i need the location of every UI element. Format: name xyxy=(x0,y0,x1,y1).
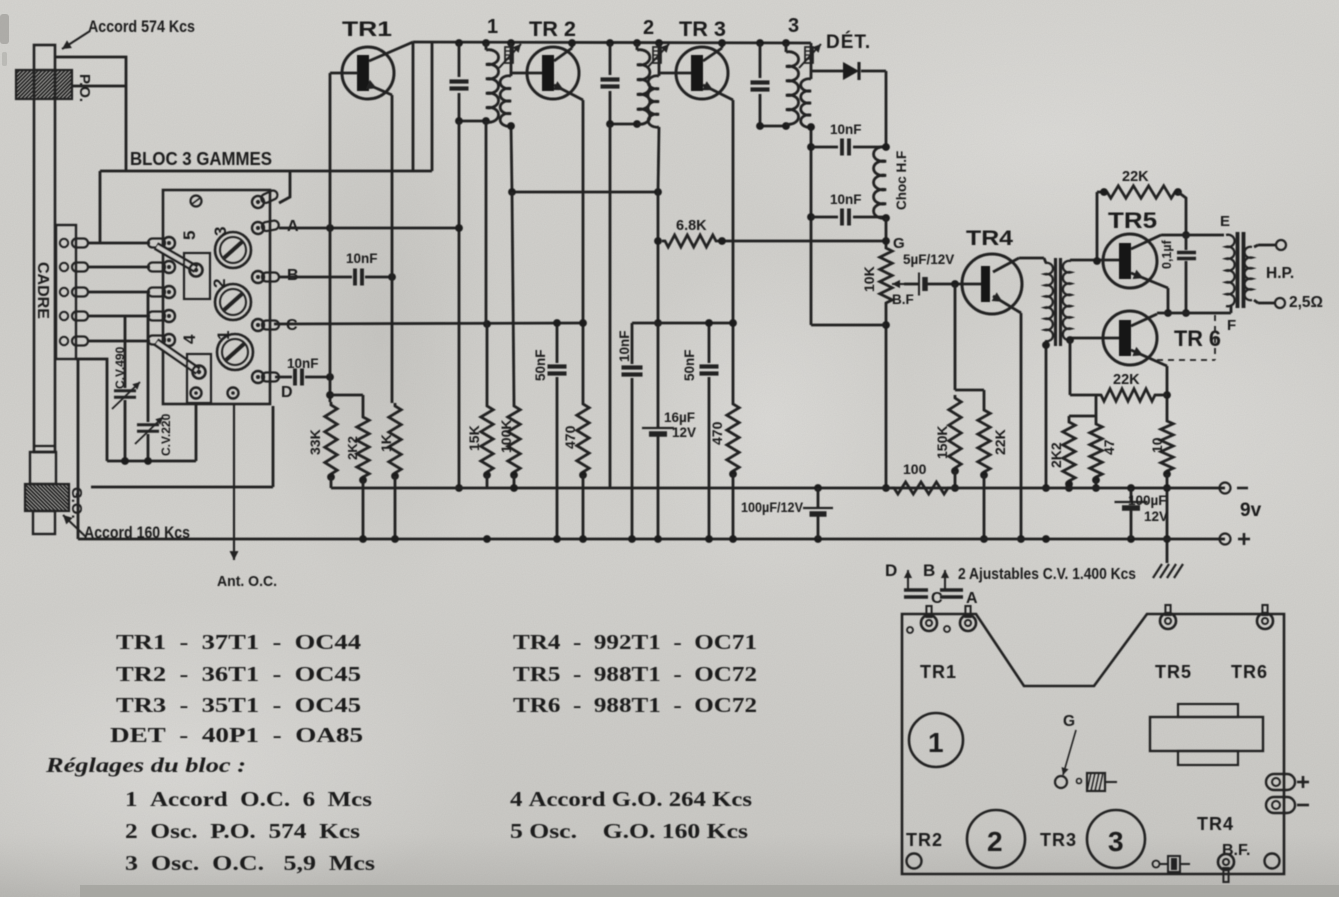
svg-text:5 Osc. G.O. 160 Kcs: 5 Osc. G.O. 160 Kcs xyxy=(510,819,748,843)
bloc left pad 4 xyxy=(148,310,175,322)
wire TR4 emitter to transformer xyxy=(1019,257,1044,260)
wire 1K to +rail xyxy=(394,476,397,539)
wire bloc pad down xyxy=(195,404,198,461)
wire F line xyxy=(1157,312,1231,315)
svg-text:Choc H.F: Choc H.F xyxy=(894,151,909,210)
capacitor IF2 tuning xyxy=(609,43,612,75)
transistor TR4 xyxy=(962,254,1022,314)
P.O. tuning slug (hatched) xyxy=(16,70,72,99)
svg-text:D: D xyxy=(281,384,293,401)
wire 100K vertical xyxy=(512,192,514,403)
bloc left pad 1 xyxy=(148,237,175,249)
rod bottom stub xyxy=(33,511,55,534)
pcb outline xyxy=(902,614,1284,874)
svg-text:A: A xyxy=(287,218,299,235)
transistor TR2 xyxy=(527,47,579,99)
resistor 22K (lower) xyxy=(1098,389,1158,401)
svg-text:100µF/12V: 100µF/12V xyxy=(741,499,804,515)
wire 22K to +rail xyxy=(983,475,986,539)
svg-text:2,5Ω: 2,5Ω xyxy=(1289,294,1323,311)
wire strip pad1 to bloc switch 5 xyxy=(88,242,150,245)
wire AVC line y171 xyxy=(100,170,432,173)
svg-text:CADRE: CADRE xyxy=(34,262,51,319)
TR2 leads xyxy=(554,48,572,61)
junction TR4 base node xyxy=(951,280,959,288)
transistor TR3 xyxy=(676,47,728,99)
capacitor C (pcb) xyxy=(904,588,928,592)
wire strip pad4 to bloc xyxy=(88,315,150,318)
svg-text:DET - 40P1 - OA85: DET - 40P1 - OA85 xyxy=(110,723,363,747)
junction xyxy=(359,476,367,484)
bloc bottom pad left xyxy=(191,388,202,399)
wire 2K2 to +rail xyxy=(362,480,365,539)
svg-text:B: B xyxy=(923,561,935,580)
junction xyxy=(121,457,129,465)
wire strip pad2 to bloc xyxy=(88,266,150,269)
svg-text:3: 3 xyxy=(1108,826,1124,857)
TR4 leads xyxy=(993,258,1019,272)
svg-text:TR 3: TR 3 xyxy=(679,18,726,41)
potentiometer 10K xyxy=(880,245,892,306)
wire IF2 sec bottom down xyxy=(658,127,659,192)
wire IF1 sec bottom down xyxy=(511,126,512,192)
svg-text:Ant. O.C.: Ant. O.C. xyxy=(217,573,277,590)
pcb pad E xyxy=(1160,613,1176,629)
svg-text:10nF: 10nF xyxy=(346,251,378,266)
svg-text:Accord 574 Kcs: Accord 574 Kcs xyxy=(88,17,195,36)
svg-text:TR2: TR2 xyxy=(906,830,943,850)
wire C.V.220 vertical xyxy=(147,292,150,422)
junction xyxy=(1092,476,1100,484)
wire 22K right down xyxy=(1178,192,1186,235)
wire IF2 down to rail xyxy=(609,124,612,488)
junction xyxy=(326,391,334,399)
svg-text:22K: 22K xyxy=(992,429,1008,455)
wire IF2 cap bottom xyxy=(610,123,637,126)
TR5 leads xyxy=(1131,235,1161,249)
wire vertical x432 xyxy=(431,43,434,171)
svg-text:5: 5 xyxy=(180,231,199,240)
transistor TR5 xyxy=(1103,234,1157,288)
arrow G xyxy=(1063,730,1076,775)
svg-text:TR4 - 992T1 - OC71: TR4 - 992T1 - OC71 xyxy=(513,630,757,654)
wire TR1 collector down xyxy=(391,95,394,403)
wire bias jog xyxy=(330,394,363,397)
arrow Ant. O.C. xyxy=(233,404,235,560)
G.O. tuning slug (hatched) xyxy=(25,484,69,511)
transformer output core xyxy=(1236,232,1240,308)
dashed link TR6 xyxy=(1157,359,1215,361)
junction xyxy=(327,473,335,481)
pcb circle 2 xyxy=(967,810,1025,868)
strip pad 5 xyxy=(60,337,68,345)
svg-text:3 Osc. O.C. 5,9 Mcs: 3 Osc. O.C. 5,9 Mcs xyxy=(125,851,375,875)
wire bloc right corner down xyxy=(272,406,275,487)
bloc bottom pad right xyxy=(228,388,239,399)
bloc right pad A xyxy=(251,218,280,235)
resistor 22K (top) xyxy=(1104,186,1178,198)
svg-text:2: 2 xyxy=(210,279,229,288)
junction xyxy=(980,471,988,479)
bloc box xyxy=(163,190,270,404)
capacitor 10nF (det2) xyxy=(811,216,838,219)
svg-text:2 Osc. P.O. 574 Kcs: 2 Osc. P.O. 574 Kcs xyxy=(125,819,360,843)
svg-text:DÉT.: DÉT. xyxy=(826,31,871,53)
wire y325 link xyxy=(811,324,886,327)
switch lever 4 xyxy=(156,342,198,371)
svg-text:3: 3 xyxy=(788,15,799,37)
svg-text:TR 6: TR 6 xyxy=(1174,326,1221,351)
wire HP top xyxy=(1254,245,1258,247)
wire strip bottom to bus xyxy=(76,359,107,461)
wire 100K to rail xyxy=(513,475,516,488)
pot wiper arrow xyxy=(892,283,904,285)
resistor 10 xyxy=(1161,418,1173,474)
capacitor 100uF/12V (right) xyxy=(1130,488,1133,501)
svg-text:G: G xyxy=(893,235,905,252)
svg-text:1: 1 xyxy=(928,727,944,758)
wire IF1 cap bottom xyxy=(459,120,486,123)
wire coil1 bottom to C line xyxy=(485,121,488,324)
svg-text:TR2 - 36T1 - OC45: TR2 - 36T1 - OC45 xyxy=(116,662,361,686)
wire x658 down xyxy=(657,192,660,323)
svg-text:TR1 - 37T1 - OC44: TR1 - 37T1 - OC44 xyxy=(116,630,362,654)
trimmer IF2 xyxy=(658,43,661,76)
wire P.O. to vertical xyxy=(72,85,126,88)
svg-text:6.8K: 6.8K xyxy=(676,218,707,234)
svg-text:TR6: TR6 xyxy=(1231,662,1268,682)
resistor 47 xyxy=(1090,421,1102,480)
capacitor 50nF (right) xyxy=(708,323,711,363)
pcb pad - xyxy=(1266,797,1295,813)
wire strip right down xyxy=(77,359,80,539)
svg-text:TR5 - 988T1 - OC72: TR5 - 988T1 - OC72 xyxy=(513,662,757,686)
svg-text:470: 470 xyxy=(709,421,725,445)
wire +rail xyxy=(78,538,1225,541)
bloc left pad 3 xyxy=(148,286,175,298)
wire D cap to bias xyxy=(305,376,330,379)
capacitor 100uF/12V (left) xyxy=(817,488,820,507)
trimmer 2 (circle) xyxy=(215,284,251,320)
bloc right pad D xyxy=(252,371,279,383)
wire 10 to ground xyxy=(1166,474,1169,563)
trimmer IF3 xyxy=(810,43,813,79)
trimmer 3 (circle) xyxy=(215,232,251,268)
svg-text:33K: 33K xyxy=(307,429,323,455)
resistor 100K xyxy=(508,403,520,475)
wire strip pad5 to bloc switch 4 xyxy=(88,340,150,343)
svg-text:G.O.: G.O. xyxy=(68,487,85,519)
wire primary bottom to rail xyxy=(1045,341,1048,488)
svg-text:12V: 12V xyxy=(1144,509,1168,524)
junction xyxy=(388,273,396,281)
junction xyxy=(1065,480,1073,488)
ferrite rod antenna (CADRE) body xyxy=(34,45,55,452)
svg-text:TR5: TR5 xyxy=(1108,208,1157,233)
resistor 1K xyxy=(389,403,401,476)
wire C line xyxy=(274,323,583,324)
wire vertical x413 xyxy=(412,42,415,171)
svg-text:50nF: 50nF xyxy=(533,349,548,381)
svg-text:150K: 150K xyxy=(934,426,950,459)
transformer output primary xyxy=(1226,235,1235,307)
pcb pad + xyxy=(1266,774,1295,790)
svg-text:15K: 15K xyxy=(466,425,482,451)
svg-text:2K2: 2K2 xyxy=(1048,442,1064,468)
wire 6.8K to pot xyxy=(719,240,886,243)
terminal HP bottom xyxy=(1275,298,1285,308)
svg-text:10nF: 10nF xyxy=(287,356,319,371)
svg-text:H.P.: H.P. xyxy=(1266,265,1294,282)
bloc left pad 5 xyxy=(148,334,175,346)
strip pad 1 xyxy=(60,239,68,247)
capacitor 5uF electrolytic xyxy=(904,283,919,286)
svg-text:C.V.220: C.V.220 xyxy=(159,413,173,456)
junction xyxy=(391,472,399,480)
svg-text:10nF: 10nF xyxy=(830,192,862,207)
wire TR4 bias down xyxy=(954,284,957,390)
junction xyxy=(951,467,959,475)
wire TR3 emitter up xyxy=(721,43,724,48)
variable capacitor C.V.490 xyxy=(114,389,136,392)
arrow to P.O. slug xyxy=(62,31,90,49)
svg-text:10nF: 10nF xyxy=(830,122,862,137)
pcb G hole xyxy=(1055,776,1067,788)
junction A/TR1 base xyxy=(326,224,334,232)
resistor 15K xyxy=(481,403,493,475)
svg-text:22K: 22K xyxy=(1122,169,1149,185)
svg-text:A: A xyxy=(966,590,978,607)
resistor 470 (TR3) xyxy=(727,401,739,474)
resistor 100 (rail) xyxy=(891,482,951,494)
wire 22K to TR5 base xyxy=(1096,192,1099,261)
+rail dots xyxy=(359,535,367,543)
bloc right pad B xyxy=(252,271,279,283)
coil IF1 primary xyxy=(485,43,488,50)
svg-text:100: 100 xyxy=(903,461,927,477)
svg-text:TR4: TR4 xyxy=(1197,814,1234,834)
svg-text:0,1µf: 0,1µf xyxy=(1160,239,1174,269)
pcb circle 3 xyxy=(1087,810,1145,868)
wire IF3 cap bottom xyxy=(760,125,786,128)
wire secondary bottom down xyxy=(1069,340,1072,395)
bloc right pad top xyxy=(250,188,280,210)
arrow to G.O. slug xyxy=(63,515,86,537)
bloc top pad xyxy=(191,196,202,207)
junction xyxy=(510,471,518,479)
rail dots xyxy=(510,484,518,492)
wire IF2 sec to TR3 base xyxy=(659,72,692,75)
svg-text:47: 47 xyxy=(1101,439,1117,455)
svg-text:TR1: TR1 xyxy=(920,662,957,682)
bloc left pad 2 xyxy=(148,261,175,273)
wire left bracket vertical xyxy=(99,171,102,243)
transformer driver core xyxy=(1054,258,1057,346)
wire 15K to rail xyxy=(486,475,489,488)
pcb hole small 1 xyxy=(907,627,913,633)
svg-text:100µF: 100µF xyxy=(1128,493,1167,508)
capacitor A (pcb) xyxy=(940,588,963,592)
svg-text:50nF: 50nF xyxy=(682,349,697,381)
svg-text:1K: 1K xyxy=(378,434,394,452)
junction xyxy=(326,373,334,381)
wire TR5 emitter down xyxy=(1167,288,1170,313)
connector strip body xyxy=(56,225,76,359)
wire rod top xyxy=(56,57,126,171)
wire secondary bottom to TR6 xyxy=(1069,338,1072,340)
terminal HP top xyxy=(1276,240,1286,250)
wire TR4 collector down xyxy=(1020,313,1023,539)
pcb transformer body xyxy=(1150,717,1263,751)
svg-text:4 Accord G.O. 264 Kcs: 4 Accord G.O. 264 Kcs xyxy=(510,787,752,811)
svg-text:10K: 10K xyxy=(861,266,877,292)
resistor 6.8K xyxy=(662,235,719,247)
capacitor 0.1uF xyxy=(1185,235,1188,250)
junction xyxy=(729,470,737,478)
resistor 2K2 xyxy=(357,414,369,480)
svg-text:1: 1 xyxy=(214,331,233,340)
pcb pad C xyxy=(921,615,937,631)
wire B cap to TR1 xyxy=(365,276,392,279)
wire AGC line y192 xyxy=(512,191,658,194)
svg-text:9v: 9v xyxy=(1240,500,1262,521)
capacitor 10nF (D) xyxy=(293,369,297,386)
wire TR3 collector down xyxy=(732,100,735,401)
pcb B.F. pad xyxy=(1218,854,1234,870)
coil IF2 primary xyxy=(636,43,639,50)
wire diode down to choc xyxy=(885,71,888,147)
svg-text:2 Ajustables C.V. 1.400 Kcs: 2 Ajustables C.V. 1.400 Kcs xyxy=(958,566,1136,583)
capacitor 10nF (mid) xyxy=(631,323,634,364)
coil IF1 secondary xyxy=(500,76,511,126)
wire B line xyxy=(279,276,352,279)
coil IF2 secondary xyxy=(648,76,659,127)
capacitor IF3 tuning xyxy=(759,43,762,78)
capacitor 10nF (det1) xyxy=(811,146,838,149)
wire F stub xyxy=(1230,306,1233,313)
pcb hole small 2 xyxy=(944,626,950,632)
svg-text:100K: 100K xyxy=(498,420,514,453)
wire secondary top to TR5 xyxy=(1069,260,1072,261)
svg-text:E: E xyxy=(1220,213,1230,230)
transformer driver secondary xyxy=(1063,261,1071,341)
wire 33K to rail xyxy=(330,477,333,488)
wire D line xyxy=(275,376,292,379)
pcb transformer tab bottom xyxy=(1178,751,1238,765)
rod joint lines xyxy=(34,445,55,447)
svg-text:1 Accord O.C. 6 Mcs: 1 Accord O.C. 6 Mcs xyxy=(125,787,372,811)
svg-text:1: 1 xyxy=(487,16,498,38)
transformer driver primary xyxy=(1045,263,1053,342)
transistor TR1 xyxy=(342,47,394,99)
variable capacitor C.V.220 xyxy=(137,423,159,426)
wire bias jog xyxy=(955,389,984,392)
svg-text:2: 2 xyxy=(643,17,654,39)
svg-text:G: G xyxy=(1063,713,1075,730)
svg-text:3: 3 xyxy=(211,227,230,236)
wire 150K to rail xyxy=(954,471,957,488)
trimmer 1 (circle) xyxy=(217,334,253,370)
coil Choc H.F. xyxy=(874,147,886,219)
coil IF3 primary xyxy=(785,43,788,52)
pcb G square (hatched) xyxy=(1087,773,1105,791)
junction xyxy=(1163,470,1171,478)
svg-text:TR 2: TR 2 xyxy=(529,18,576,41)
wire IF1 cap down to rail xyxy=(458,121,461,488)
svg-text:Réglages du bloc :: Réglages du bloc : xyxy=(45,753,246,777)
svg-text:C.V.490: C.V.490 xyxy=(113,346,127,389)
resistor 150K xyxy=(949,395,961,471)
wire 2K2b to rail xyxy=(1068,484,1071,488)
wire y323 link xyxy=(632,322,733,325)
wire pot bottom down xyxy=(885,306,888,488)
pcb pad F xyxy=(1257,613,1273,629)
wire choc to pot xyxy=(885,218,888,245)
wire -9v rail xyxy=(331,487,1225,490)
TR1 base wire xyxy=(330,72,358,75)
strip pad 4 xyxy=(60,312,68,320)
wire TR6 collector down xyxy=(1166,366,1169,418)
junction xyxy=(579,319,587,327)
capacitor IF1 tuning xyxy=(458,43,461,77)
resistor 470 (TR2) xyxy=(577,401,589,475)
svg-text:B.F: B.F xyxy=(892,292,914,307)
svg-text:TR3: TR3 xyxy=(1040,830,1077,850)
diode DET xyxy=(811,70,843,73)
svg-text:TR5: TR5 xyxy=(1155,662,1192,682)
wire bloc top pad up xyxy=(279,171,290,203)
svg-text:C: C xyxy=(286,317,298,334)
wire 47 to rail xyxy=(1095,480,1098,488)
wire top rail xyxy=(413,42,811,43)
svg-text:D: D xyxy=(885,561,897,580)
junction xyxy=(1100,188,1108,196)
svg-text:2: 2 xyxy=(987,826,1003,857)
wire 2K2b/47 feed xyxy=(1095,395,1098,416)
wire C.V.490 vertical xyxy=(124,316,127,388)
trimmer IF1 xyxy=(510,43,513,76)
wire IF3 sec bottom down xyxy=(810,127,813,325)
pcb B.F. component xyxy=(1153,861,1160,868)
svg-text:TR4: TR4 xyxy=(966,227,1013,250)
pcb transformer tab top xyxy=(1178,704,1238,717)
wire E to transformer xyxy=(1222,234,1224,237)
switch lever 5 xyxy=(156,246,196,269)
arrow B xyxy=(944,570,946,590)
ground symbol xyxy=(1153,564,1162,578)
wire bus y461 xyxy=(107,460,196,463)
svg-text:P.O.: P.O. xyxy=(76,74,93,102)
svg-text:4: 4 xyxy=(180,334,199,344)
wire E line xyxy=(1161,234,1222,237)
wire IF1 sec to TR2 base xyxy=(511,72,543,75)
svg-text:22K: 22K xyxy=(1113,372,1140,388)
svg-text:B: B xyxy=(287,267,299,284)
svg-text:5µF/12V: 5µF/12V xyxy=(903,252,954,267)
wire A line xyxy=(279,227,459,230)
wire 470 to +rail xyxy=(582,475,585,539)
resistor 2K2 (output) xyxy=(1063,419,1075,484)
svg-text:B.F.: B.F. xyxy=(1222,842,1250,859)
coil IF3 secondary xyxy=(801,79,811,127)
wire TR2 emitter up xyxy=(571,43,574,48)
strip pad 2 xyxy=(60,263,68,271)
svg-text:TR6 - 988T1 - OC72: TR6 - 988T1 - OC72 xyxy=(513,693,757,717)
svg-text:10nF: 10nF xyxy=(617,330,632,362)
arrow D xyxy=(907,570,909,590)
wire lower-left horizontal xyxy=(91,486,273,489)
terminal + xyxy=(1220,534,1231,545)
